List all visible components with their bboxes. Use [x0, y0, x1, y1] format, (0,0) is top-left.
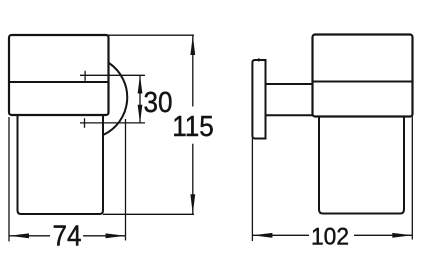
side view: arm top line: [266, 83, 313, 85]
svg-text:74: 74: [52, 219, 81, 252]
front view: wall plate / holder square: [9, 35, 109, 115]
dim 102: right arrowhead: [392, 233, 412, 238]
dim 102: left extension line: [251, 139, 253, 242]
dim 30: lower origin tick: [84, 118, 86, 128]
dim 74: dimension line left segment: [9, 235, 50, 237]
svg-text:115: 115: [172, 110, 214, 143]
front view: plate seam line: [9, 81, 109, 83]
dim 30: upper extension line: [80, 74, 145, 76]
side view: arm bottom line: [266, 114, 313, 116]
dim 30: lower extension line: [80, 122, 145, 124]
dim 30: up arrowhead: [138, 75, 143, 93]
dim 102: left arrowhead: [252, 233, 272, 238]
dim 102: dimension line left segment: [252, 234, 309, 236]
front view: glass tumbler: [18, 115, 104, 214]
dim 30: down arrowhead: [138, 105, 143, 123]
dim 115: top extension line: [107, 34, 194, 36]
dim 115: down arrowhead: [190, 194, 195, 214]
dim 74: left arrowhead: [9, 233, 29, 238]
dim 115: up arrowhead: [190, 35, 195, 55]
dim 74: right arrowhead: [106, 233, 126, 238]
side view: holder body: [313, 35, 413, 117]
dim 115: bottom extension line: [103, 213, 194, 215]
side view: wall plate: [252, 60, 265, 139]
svg-text:30: 30: [143, 86, 172, 119]
side view: plate top seam tick: [258, 58, 260, 61]
dim 30: upper origin tick: [84, 71, 86, 81]
side view: glass tumbler: [319, 117, 404, 214]
dim 102: dimension line right segment: [354, 234, 412, 236]
dim 74: right extension line: [125, 119, 127, 241]
dim 74: dimension line right segment: [83, 235, 126, 237]
front view: arm arc: [103, 63, 127, 135]
dim 74: left extension line: [8, 117, 10, 241]
dim 102: right extension line: [411, 117, 413, 240]
svg-text:102: 102: [311, 223, 349, 250]
side view: holder seam line: [313, 81, 413, 83]
dim 115: dimension line: [192, 35, 194, 106]
dim 30: dimension line: [139, 75, 141, 123]
